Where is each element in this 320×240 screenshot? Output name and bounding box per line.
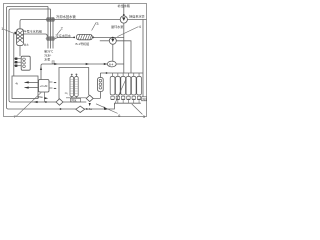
svg-text:回: 回 [52, 60, 55, 64]
svg-text:出水: 出水 [24, 43, 30, 47]
wire pump unit down to bottom line [44, 92, 46, 102]
wire strainer vertical [99, 73, 101, 98]
wire arrow line into tank upper [25, 81, 39, 83]
wire riser 1 [47, 7, 49, 49]
svg-text:4: 4 [139, 25, 141, 29]
wire E1 left stub going down to manifold [14, 33, 17, 76]
svg-text:冷却水回水管: 冷却水回水管 [56, 14, 76, 19]
radiator bottom connectors [111, 96, 141, 99]
node above P1 [123, 14, 125, 16]
manifold stub 3 with valve [14, 65, 21, 67]
fan box at radiator right [142, 97, 148, 101]
svg-text:6: 6 [118, 114, 120, 118]
svg-text:B-1号机组: B-1号机组 [76, 41, 90, 46]
twin column 2 [75, 74, 79, 96]
wire riser 2 [50, 9, 52, 49]
wire right riser from top line down [142, 20, 144, 97]
valve V2 (diamond on y=109) [76, 106, 85, 112]
node on line above P2 [112, 37, 114, 39]
svg-text:2: 2 [61, 26, 63, 30]
tank box bottom-left [12, 76, 38, 99]
leader for label 1 [4, 30, 13, 34]
wire lowest return line corner up to ticked line [105, 103, 114, 109]
fitting F1 (tee on risers, upper) [46, 17, 56, 21]
pump P1 (circle with triangle) [120, 16, 127, 23]
svg-text:+O+M: +O+M [40, 84, 48, 88]
svg-text:4号冷水机组: 4号冷水机组 [25, 28, 42, 33]
radiator necks to header [113, 73, 140, 76]
manifold box with 3 ports [21, 56, 30, 70]
border frame [4, 4, 147, 117]
arrow right on line y=64 [54, 63, 57, 65]
strainer S1 (vertical capsule with circles) [98, 78, 104, 92]
svg-text:补给水箱: 补给水箱 [118, 3, 130, 8]
wire condenser to junction line [92, 37, 124, 39]
svg-text:回水: 回水 [71, 98, 77, 102]
wire arrow line into tank lower [25, 87, 39, 89]
valve V1 (diamond on y=102) [56, 99, 63, 105]
wire P1 up to border [123, 4, 125, 16]
arrow right near B-4 [104, 63, 107, 65]
svg-text:7: 7 [14, 115, 16, 119]
text block pump room labels [44, 48, 54, 64]
svg-text:4t: 4t [15, 81, 18, 85]
node on lowest line [60, 108, 62, 110]
radiator bank (6 vertical capsules) [110, 76, 141, 95]
valve V3 (diamond right of columns) [86, 95, 93, 101]
leader into radiator [115, 80, 126, 105]
flange on E1 left stub [15, 32, 16, 35]
wire vessel right to F2 riser [23, 34, 47, 36]
wire P1 down to radiator header [123, 23, 125, 73]
condenser E2 (horizontal hatched capsule) [77, 34, 93, 39]
wire outer loop pipe (top-left, left side, bottom return) [7, 7, 106, 110]
arrowhead on leader 6 [104, 106, 108, 110]
manifold stub 2 with valve [14, 61, 21, 63]
svg-text:1: 1 [1, 27, 3, 31]
wire V3 to strainer line [93, 97, 100, 99]
leader for label 2 [57, 30, 61, 35]
wire B-4 right to junction [116, 63, 124, 65]
svg-text:45a: 45a [38, 95, 43, 99]
flowmeter B-4 (oval) [107, 61, 116, 67]
wire line from pump P1 to right border [127, 19, 146, 21]
svg-text:⅛¡: ⅛¡ [65, 91, 68, 95]
wire middle supply line y=64 [41, 64, 107, 80]
twin column 1 [70, 74, 74, 96]
wire twin columns bottom header [66, 97, 86, 99]
svg-text:3: 3 [143, 115, 145, 119]
wire header down ticks [72, 97, 77, 98]
svg-text:接自来水管: 接自来水管 [129, 14, 144, 19]
pump P2 (circle with triangle) [109, 37, 116, 44]
heat-exchanger E1 (vertical column with cross hatch) [17, 29, 24, 46]
wire inner loop pipe (becomes y=102 return line) [9, 9, 86, 102]
arrow left on bottom line y=102 [34, 101, 38, 103]
wire P2 right then down to radiator header [116, 41, 131, 73]
wire chilled water line from F2 to condenser [55, 37, 74, 40]
node on bottom line [45, 101, 47, 103]
node dot before condenser [73, 37, 75, 39]
leader for label 7 [16, 92, 41, 116]
enclosure box around twin columns [59, 68, 89, 102]
leader for label 6 [96, 104, 118, 114]
arrow up on vertical x=41 [40, 67, 42, 70]
svg-text:循环水泵: 循环水泵 [111, 24, 123, 29]
arrow down below V3 [89, 103, 91, 106]
pump unit box (component with +O+M) [39, 80, 50, 93]
leader for label 4 [117, 27, 138, 37]
svg-text:冷冻水回水: 冷冻水回水 [55, 33, 71, 38]
stub right upper of pump unit [49, 81, 53, 83]
wire radiator bottom ticked line [114, 102, 140, 104]
svg-text:B-4: B-4 [109, 62, 114, 66]
stub right lower of pump unit [49, 87, 53, 89]
node dot after condenser [92, 37, 94, 39]
wire radiator top header [100, 72, 143, 74]
wire E1 top pipe [19, 22, 21, 29]
svg-text:水泵: 水泵 [44, 56, 50, 61]
svg-text:3: 3 [96, 22, 98, 26]
arrow right mid line [86, 63, 89, 65]
fitting F2 (tee on risers, lower) [46, 36, 56, 40]
leader for label 3 [92, 22, 97, 30]
node on header [106, 72, 108, 74]
leader for label 3b [132, 104, 143, 114]
wire riser 3 [52, 20, 54, 49]
wire P2 left stub [100, 40, 110, 42]
wire E1 bottom pipe [19, 46, 21, 57]
small box on y=102 line [71, 98, 81, 102]
wire P2 down to flowmeter B-4 [112, 44, 114, 61]
node at x=105 [104, 108, 106, 110]
svg-text:B-4a: B-4a [86, 107, 92, 111]
manifold stub 1 with valve [14, 58, 21, 60]
wire cooling water return line y=19.5 [20, 20, 120, 22]
tick on E1 right [23, 30, 25, 32]
